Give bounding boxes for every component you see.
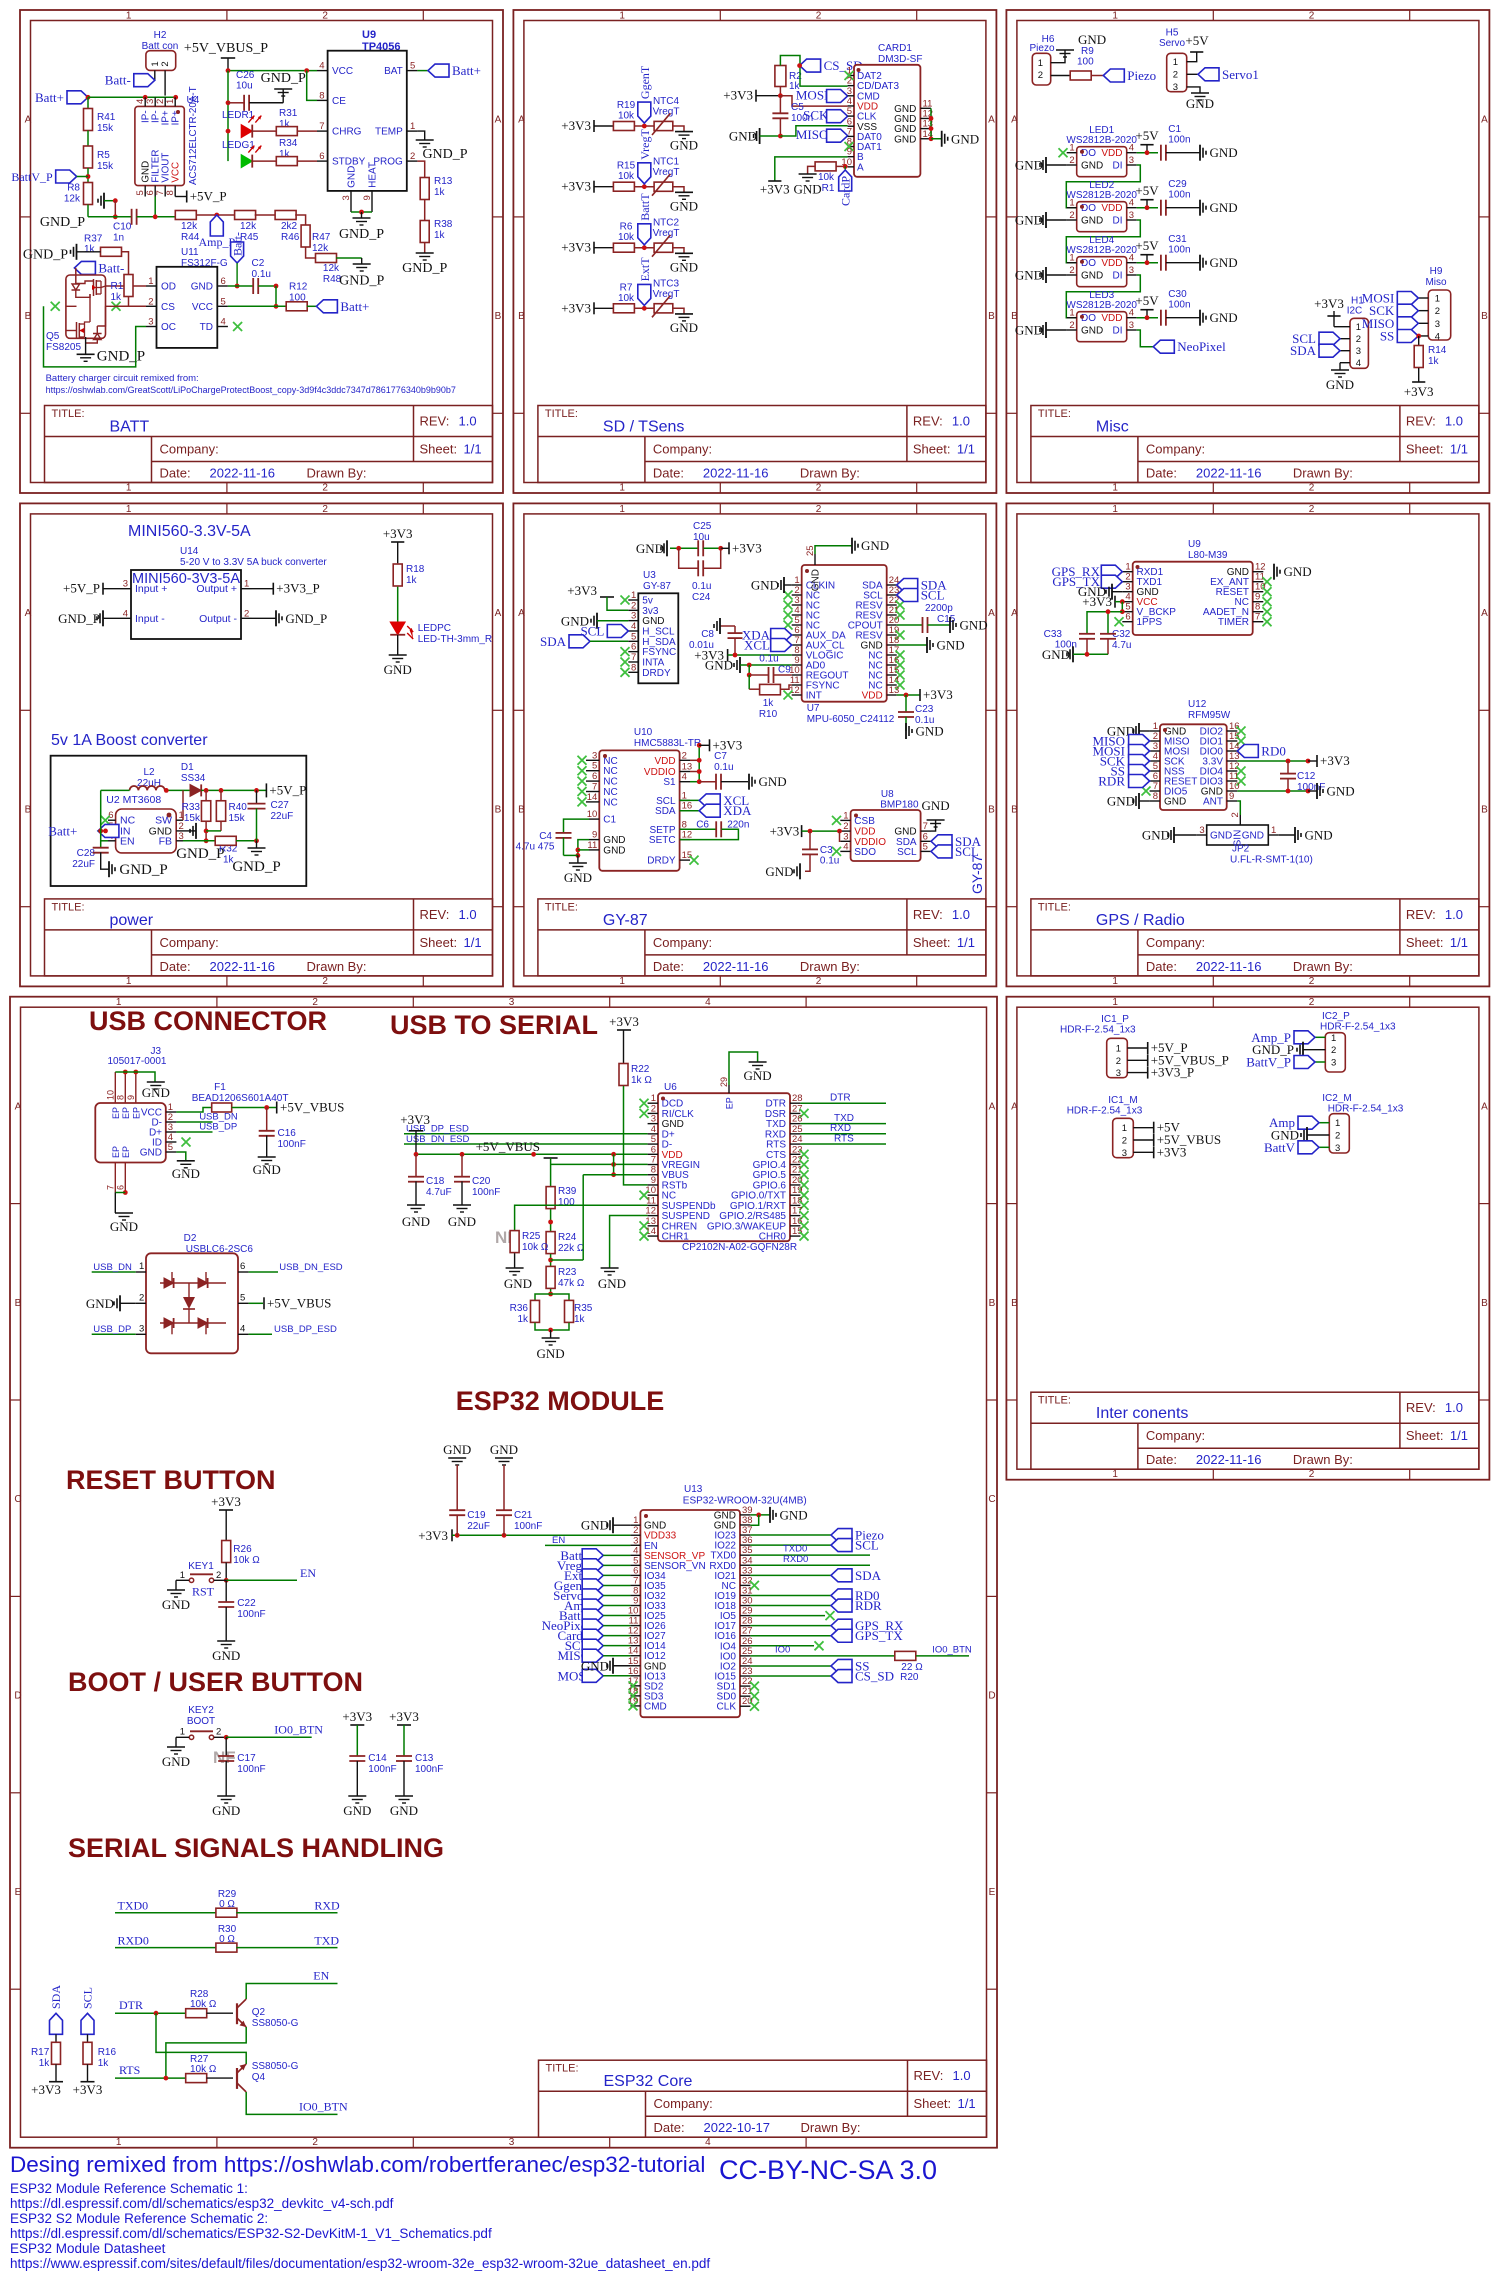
capacitor C33 100n: [1044, 629, 1095, 654]
svg-text:2022-11-16: 2022-11-16: [1196, 959, 1262, 974]
svg-text:14: 14: [587, 792, 598, 803]
svg-text:USB_DN_ESD: USB_DN_ESD: [279, 1262, 342, 1273]
net flag SCL at U13 right: [750, 1538, 879, 1553]
svg-text:GND: GND: [1210, 831, 1232, 842]
svg-text:R36: R36: [510, 1303, 529, 1314]
power +3V3 below R16: [73, 2082, 103, 2097]
svg-text:VDD: VDD: [1101, 313, 1122, 324]
ground GND at J3 shield bottom: [110, 1213, 138, 1234]
svg-text:Batt-: Batt-: [105, 73, 131, 88]
ground GND left of LED3: [1015, 322, 1067, 338]
svg-text:ExtT: ExtT: [638, 257, 652, 282]
ground GND at NTC3: [670, 314, 698, 335]
svg-text:1/1: 1/1: [1450, 1428, 1468, 1443]
svg-text:1.0: 1.0: [952, 414, 970, 429]
net flag SDA at U13 right: [750, 1568, 881, 1583]
svg-text:EP: EP: [121, 1107, 131, 1119]
svg-text:EN: EN: [552, 1535, 565, 1546]
wire IN EN C28 rail: [101, 790, 108, 845]
svg-text:EN: EN: [300, 1566, 316, 1580]
ground GND_P left: [40, 193, 118, 230]
thermistor NTC4 VregT: [652, 96, 684, 135]
svg-text:100nF: 100nF: [368, 1764, 396, 1775]
capacitor C10 1n: [88, 209, 176, 244]
resistor R20 22: [750, 1644, 972, 1683]
svg-text:REV:: REV:: [1406, 414, 1436, 429]
net flag MOSI at U12: [1092, 744, 1149, 759]
heading SERIAL SIGNALS HANDLING: [68, 1833, 444, 1863]
power +3V3 at R6: [561, 240, 613, 255]
svg-text:TITLE:: TITLE:: [52, 408, 85, 420]
svg-text:A: A: [1481, 608, 1488, 619]
svg-text:RDR: RDR: [855, 1598, 882, 1613]
svg-text:REV:: REV:: [913, 907, 943, 922]
ground GND_P at TEMP: [416, 131, 468, 162]
svg-text:1k: 1k: [84, 244, 96, 255]
wire OD: [105, 285, 146, 287]
svg-text:3: 3: [509, 2137, 515, 2148]
svg-text:Date:: Date:: [1146, 959, 1177, 974]
footer license CC-BY-NC-SA 3.0: [719, 2155, 937, 2185]
svg-text:0.1u: 0.1u: [714, 762, 733, 773]
svg-text:GPS_TX: GPS_TX: [855, 1628, 903, 1643]
svg-text:DO: DO: [1081, 313, 1096, 324]
svg-text:1: 1: [843, 810, 848, 821]
svg-text:4: 4: [123, 608, 128, 619]
svg-text:TIMER: TIMER: [1218, 617, 1249, 628]
svg-text:GND_P: GND_P: [261, 71, 306, 86]
net label USB_DN: [176, 1112, 237, 1123]
svg-text:C14: C14: [368, 1753, 387, 1764]
svg-text:Drawn By:: Drawn By:: [1293, 959, 1353, 974]
net flag SCK: [803, 108, 847, 123]
svg-text:https://dl.espressif.com/dl/sc: https://dl.espressif.com/dl/schematics/E…: [10, 2226, 492, 2241]
svg-text:U8: U8: [881, 789, 894, 800]
svg-text:IO0_BTN: IO0_BTN: [932, 1644, 972, 1655]
svg-text:TITLE:: TITLE:: [52, 901, 85, 913]
svg-text:FB: FB: [159, 835, 172, 847]
svg-text:GND: GND: [765, 864, 793, 879]
net flag XDA: [742, 628, 792, 643]
power +3V3 at C13: [389, 1709, 419, 1756]
svg-text:GY-87: GY-87: [643, 581, 671, 592]
no connect IO5: [750, 1611, 834, 1620]
pressure sensor U8 BMP180: [832, 789, 931, 861]
svg-text:B: B: [988, 805, 995, 816]
net flag XCL at U10: [680, 793, 750, 808]
svg-text:SS: SS: [1380, 329, 1394, 344]
svg-text:0.1u: 0.1u: [252, 269, 271, 280]
svg-text:CardP: CardP: [839, 176, 853, 206]
svg-text:NC: NC: [603, 777, 617, 788]
svg-text:+3V3: +3V3: [1320, 753, 1350, 768]
svg-text:1k: 1k: [98, 2058, 110, 2069]
resistor R6 10k: [613, 222, 654, 253]
svg-text:12k: 12k: [240, 221, 257, 232]
svg-text:5: 5: [410, 61, 415, 72]
net flag Servo1 at U13: [553, 1588, 630, 1603]
heading USB CONNECTOR: [89, 1006, 327, 1036]
net label USB_DN_ESD: [249, 1262, 343, 1273]
net flag RD0 at U13 right: [750, 1588, 879, 1603]
svg-text:GY-87: GY-87: [603, 912, 648, 929]
net flag MOSI at U13: [557, 1668, 630, 1683]
svg-text:Drawn By:: Drawn By:: [1293, 1452, 1353, 1467]
svg-text:2: 2: [1309, 483, 1315, 494]
net flag SDA at H1: [1290, 343, 1340, 358]
net flag Amp_P: [198, 215, 235, 249]
svg-text:+3V3: +3V3: [1314, 296, 1344, 311]
svg-text:1: 1: [1038, 58, 1043, 69]
svg-text:C25: C25: [693, 521, 712, 532]
svg-text:A: A: [25, 608, 32, 619]
svg-text:1: 1: [1112, 997, 1118, 1008]
svg-text:1: 1: [1112, 976, 1118, 987]
resistor R18 1k: [393, 564, 425, 622]
wire VIOUT down: [153, 197, 158, 220]
svg-text:EP: EP: [111, 1107, 121, 1119]
svg-text:2022-11-16: 2022-11-16: [210, 959, 276, 974]
svg-text:Company:: Company:: [1146, 442, 1205, 457]
svg-text:GND: GND: [1242, 831, 1264, 842]
svg-text:1: 1: [1069, 308, 1074, 319]
svg-text:Batt+: Batt+: [340, 299, 369, 314]
svg-text:4: 4: [843, 841, 848, 852]
IMU U7 MPU-6050_C24112: [784, 545, 905, 725]
wire V_BCKP caps: [1087, 609, 1122, 634]
ESD protection D2 USBLC6-2SC6: [136, 1233, 254, 1353]
svg-text:RDR: RDR: [1098, 774, 1125, 789]
wire U10 GND pins: [564, 840, 590, 863]
power +3V3 at SD: [723, 88, 783, 103]
svg-text:GND_P: GND_P: [402, 261, 447, 276]
net flag Piezo at U13 right: [750, 1528, 883, 1543]
resistor R9 100: [1070, 46, 1103, 80]
svg-text:EN: EN: [313, 1969, 329, 1983]
svg-text:WS2812B-2020: WS2812B-2020: [1066, 245, 1137, 256]
svg-text:1k: 1k: [1428, 356, 1440, 367]
svg-text:1/1: 1/1: [464, 442, 482, 457]
svg-text:2: 2: [816, 504, 822, 515]
svg-text:1: 1: [1112, 483, 1118, 494]
svg-text:C29: C29: [1168, 179, 1187, 190]
net flag Batt+ boost: [48, 823, 119, 838]
svg-text:+3V3: +3V3: [609, 1014, 639, 1029]
resistor R8 12k: [64, 183, 93, 217]
svg-text:NC: NC: [603, 766, 617, 777]
title block Misc: [1031, 406, 1479, 483]
resistor R35 1k: [548, 1294, 593, 1338]
svg-text:+3V3: +3V3: [567, 583, 597, 598]
power +3V3 rail at U13: [418, 1528, 630, 1543]
svg-text:GND: GND: [1015, 268, 1043, 283]
svg-text:5: 5: [168, 1142, 173, 1153]
svg-text:ANT: ANT: [1203, 797, 1223, 808]
svg-text:TITLE:: TITLE:: [1038, 901, 1071, 913]
svg-text:https://dl.espressif.com/dl/sc: https://dl.espressif.com/dl/schematics/e…: [10, 2196, 394, 2211]
resistor R16 1k: [83, 2042, 116, 2081]
ground GND at C23: [906, 723, 944, 739]
svg-text:RXD0: RXD0: [783, 1554, 808, 1565]
svg-text:3: 3: [341, 195, 352, 200]
svg-text:R39: R39: [558, 1186, 577, 1197]
svg-text:4: 4: [319, 61, 324, 72]
svg-text:BEAD1206S601A40T: BEAD1206S601A40T: [192, 1093, 289, 1104]
net flag VregT at U13: [557, 1558, 631, 1573]
sensor board U3 GY-87: [621, 570, 679, 683]
svg-text:Piezo: Piezo: [1029, 43, 1054, 54]
resistor R36 1k: [510, 1294, 551, 1330]
ground GND at R1: [794, 174, 822, 197]
svg-text:GND: GND: [162, 1597, 190, 1612]
svg-text:LED-TH-3mm_R: LED-TH-3mm_R: [418, 634, 492, 645]
net flag CardP at U13: [558, 1628, 631, 1643]
svg-text:C13: C13: [415, 1753, 434, 1764]
svg-text:R44: R44: [181, 232, 200, 243]
svg-text:2: 2: [1230, 812, 1241, 817]
svg-text:R12: R12: [289, 282, 308, 293]
svg-text:+3V3_P: +3V3_P: [1151, 1065, 1194, 1080]
wire EN at U13: [545, 1535, 630, 1546]
svg-text:ESP32 S2 Module Reference Sche: ESP32 S2 Module Reference Schematic 2:: [10, 2211, 268, 2226]
svg-text:U13: U13: [684, 1484, 703, 1495]
svg-text:Date:: Date:: [160, 466, 191, 481]
wire B to +3V3: [775, 157, 848, 181]
svg-text:GND_P: GND_P: [58, 611, 100, 626]
net label USB_DP at D2: [92, 1324, 136, 1335]
svg-text:A: A: [988, 115, 995, 126]
svg-text:8: 8: [631, 662, 636, 673]
svg-text:SETC: SETC: [649, 835, 676, 846]
capacitor C30 100n: [1161, 289, 1200, 326]
svg-text:Servo: Servo: [1159, 38, 1186, 49]
power +5V_P at U14: [63, 581, 120, 596]
net label USB_DP_ESD at U6: [404, 1124, 648, 1135]
net flag SS at U12: [1111, 764, 1150, 779]
power +3V3_P at U14: [252, 581, 320, 596]
svg-text:E: E: [15, 1887, 22, 1898]
svg-text:EP: EP: [121, 1146, 131, 1158]
svg-text:GPS / Radio: GPS / Radio: [1096, 912, 1185, 929]
ground GND at C15: [950, 617, 988, 633]
title block SD / TSens: [538, 406, 986, 483]
svg-text:8: 8: [115, 1095, 125, 1100]
svg-text:47k Ω: 47k Ω: [558, 1278, 585, 1289]
svg-text:WS2812B-2020: WS2812B-2020: [1066, 135, 1137, 146]
power +3V3 at R26: [211, 1494, 241, 1540]
svg-text:+3V3: +3V3: [418, 1528, 448, 1543]
svg-text:H9: H9: [1430, 266, 1443, 277]
net flag MISO at H9: [1362, 316, 1419, 331]
svg-text:3: 3: [1129, 265, 1134, 276]
svg-text:JP2: JP2: [1232, 844, 1250, 855]
wire RTS out: [800, 1133, 886, 1144]
svg-text:C1: C1: [603, 815, 616, 826]
svg-text:2200p: 2200p: [925, 603, 953, 614]
capacitor C22 100nF: [218, 1580, 265, 1641]
svg-text:VregT: VregT: [653, 167, 680, 178]
svg-text:2: 2: [1435, 306, 1440, 317]
note battery charger source: [46, 373, 456, 395]
svg-text:Date:: Date:: [160, 959, 191, 974]
svg-text:5: 5: [592, 761, 597, 772]
svg-text:GND: GND: [960, 618, 988, 633]
svg-text:8: 8: [1153, 791, 1158, 802]
net flag SCL at BMP180: [931, 844, 979, 859]
ground GND at U13 pin15: [581, 1658, 631, 1674]
svg-text:1: 1: [1335, 1118, 1340, 1129]
svg-text:4: 4: [705, 997, 711, 1008]
net flag SCL at U3: [580, 624, 628, 639]
ground GND at R36 R35: [537, 1338, 565, 1361]
svg-text:C3: C3: [820, 845, 833, 856]
net flag MISO at U12: [1092, 734, 1149, 749]
svg-text:XCL: XCL: [744, 638, 770, 653]
svg-text:GND: GND: [1042, 647, 1070, 662]
svg-text:1k: 1k: [763, 698, 775, 709]
ground GND at C33 C32: [1042, 646, 1108, 662]
power +3V3 at U9 VCC: [1082, 594, 1124, 614]
svg-text:Sheet:: Sheet:: [1406, 442, 1444, 457]
svg-text:IC1_P: IC1_P: [1101, 1014, 1129, 1025]
svg-text:5v 1A Boost converter: 5v 1A Boost converter: [51, 732, 208, 749]
svg-text:C12: C12: [1297, 771, 1316, 782]
svg-text:1k: 1k: [517, 1314, 529, 1325]
wire SD GND pins: [929, 108, 942, 141]
ground GND_P at U14 input: [58, 610, 120, 626]
ground GND at CLKIN: [751, 577, 792, 593]
svg-text:R22: R22: [631, 1064, 650, 1075]
svg-text:4: 4: [705, 2137, 711, 2148]
capacitor C29 100n: [1161, 179, 1200, 216]
svg-text:3: 3: [1122, 1148, 1127, 1159]
svg-text:C: C: [988, 1494, 995, 1505]
svg-text:U10: U10: [634, 727, 653, 738]
svg-text:2: 2: [1069, 155, 1074, 166]
svg-text:GND: GND: [1284, 564, 1312, 579]
ground GND at C7: [749, 774, 787, 790]
capacitor C19 22uF: [449, 1510, 490, 1535]
svg-text:GND: GND: [1107, 794, 1135, 809]
svg-text:GND: GND: [140, 1148, 162, 1159]
wire to NeoPixel: [1137, 330, 1154, 347]
ground GND at C20: [448, 1205, 476, 1229]
svg-text:Date:: Date:: [654, 2120, 685, 2135]
ground GND at C3: [765, 863, 800, 879]
svg-text:+3V3: +3V3: [31, 2082, 61, 2097]
power +5V at LED2: [1135, 183, 1159, 210]
power +3V3 at C25: [721, 540, 762, 555]
wire ANT to JP2: [1237, 801, 1240, 815]
svg-text:GND: GND: [1326, 377, 1354, 392]
title block ESP32 Core: [539, 2060, 987, 2137]
svg-text:VCC: VCC: [332, 66, 353, 77]
svg-text:3: 3: [1356, 346, 1361, 357]
connector H5 Servo: [1159, 28, 1200, 93]
svg-text:8: 8: [165, 190, 176, 195]
svg-text:SERIAL SIGNALS HANDLING: SERIAL SIGNALS HANDLING: [68, 1833, 444, 1863]
svg-text:GND: GND: [537, 1346, 565, 1361]
svg-text:1: 1: [1116, 1044, 1121, 1055]
svg-text:+5V_VBUS: +5V_VBUS: [267, 1295, 331, 1310]
footer reference links: [10, 2181, 710, 2271]
svg-text:OD: OD: [161, 282, 176, 293]
svg-text:CHRG: CHRG: [332, 127, 362, 138]
resistor R15 10k: [613, 161, 654, 192]
net flag RDR at U13 right: [750, 1598, 882, 1613]
capacitor C5 100n: [772, 96, 813, 136]
resistor R5 15k: [84, 146, 115, 183]
svg-text:GND: GND: [142, 1085, 170, 1100]
buck converter U14 MINI560-3V3-5A: [121, 546, 328, 639]
svg-text:Company:: Company:: [654, 2096, 713, 2111]
svg-text:+3V3: +3V3: [1082, 594, 1112, 609]
svg-text:Q5: Q5: [46, 331, 60, 342]
svg-text:R15: R15: [617, 161, 636, 172]
capacitor C1 100n: [1161, 124, 1200, 161]
svg-text:1: 1: [1173, 57, 1178, 68]
svg-text:C4: C4: [539, 831, 552, 842]
svg-text:VDD: VDD: [1101, 203, 1122, 214]
svg-text:R23: R23: [558, 1267, 577, 1278]
svg-text:100n: 100n: [1168, 245, 1190, 256]
connector H6 Piezo: [1029, 34, 1070, 85]
svg-text:R8: R8: [67, 183, 80, 194]
svg-text:HDR-F-2.54_1x3: HDR-F-2.54_1x3: [1060, 1025, 1136, 1036]
resistor R48 12k: [316, 254, 362, 286]
power +5V_P at U4: [175, 189, 226, 204]
svg-text:9: 9: [362, 195, 373, 200]
svg-text:R38: R38: [434, 219, 453, 230]
svg-text:4: 4: [240, 1323, 245, 1334]
svg-text:GND: GND: [894, 134, 916, 145]
svg-text:ACS712ELCTR-20A-T: ACS712ELCTR-20A-T: [188, 86, 199, 185]
addressable LED LED3 WS2812B-2020: [1066, 290, 1137, 342]
svg-text:A: A: [1011, 115, 1018, 126]
ground GND left of LED2: [1015, 212, 1067, 228]
svg-text:SDO: SDO: [854, 847, 876, 858]
svg-text:7: 7: [592, 782, 597, 793]
LED LEDG1: [222, 140, 276, 168]
power +3V3 at MPU VDD: [897, 687, 953, 702]
svg-text:3: 3: [592, 750, 597, 761]
svg-text:2022-11-16: 2022-11-16: [210, 466, 276, 481]
svg-text:1: 1: [1069, 198, 1074, 209]
svg-text:3: 3: [1129, 210, 1134, 221]
svg-text:2: 2: [1331, 1045, 1336, 1056]
svg-text:BATT: BATT: [110, 419, 150, 436]
pushbutton KEY2 BOOT: [176, 1705, 229, 1747]
svg-text:2: 2: [1309, 504, 1315, 515]
svg-text:Drawn By:: Drawn By:: [800, 466, 860, 481]
heading ESP32 MODULE: [456, 1386, 665, 1416]
svg-text:GND: GND: [598, 1276, 626, 1291]
svg-text:ESP32 Module Datasheet: ESP32 Module Datasheet: [10, 2241, 166, 2256]
svg-text:4: 4: [1129, 308, 1134, 319]
svg-text:+3V3: +3V3: [770, 823, 800, 838]
svg-text:1.0: 1.0: [459, 907, 477, 922]
capacitor C8 0.01u: [689, 618, 743, 655]
net flag RD0 at U12: [1237, 744, 1286, 759]
net flag MISO at U13: [557, 1648, 630, 1663]
net flag RDR at U12: [1098, 774, 1149, 789]
svg-text:Input -: Input -: [135, 613, 165, 625]
svg-text:1: 1: [1069, 143, 1074, 154]
svg-text:TITLE:: TITLE:: [546, 2063, 579, 2075]
svg-text:NTC4: NTC4: [653, 96, 680, 107]
net flag MOSI at H9: [1362, 291, 1419, 306]
power +5V at LED1: [1135, 128, 1159, 155]
